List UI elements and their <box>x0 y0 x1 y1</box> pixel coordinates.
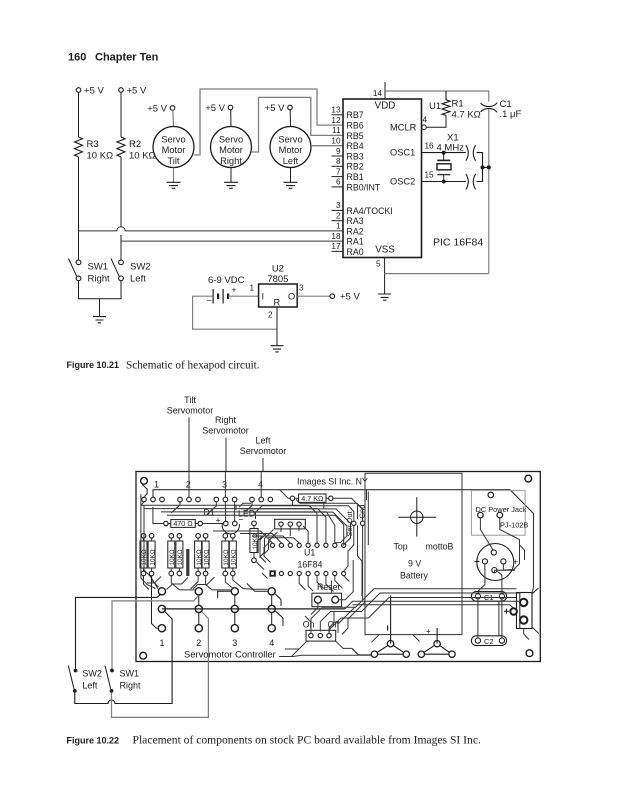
svg-text:VSS: VSS <box>375 245 395 256</box>
svg-text:+: + <box>426 627 431 636</box>
wire jack wrap trace <box>498 545 525 593</box>
pin 12 RB6 <box>331 116 363 131</box>
svg-text:2: 2 <box>268 311 273 320</box>
ground below servo Tilt <box>167 182 181 188</box>
wire R3 rail upper <box>78 92 80 137</box>
svg-text:9 V: 9 V <box>408 559 421 569</box>
mounting hole top-right <box>525 475 532 482</box>
wire staircase bundle lower <box>329 598 516 633</box>
wire Tilt ground lead <box>173 168 175 183</box>
wire battery negative loop to regulator pin 2 <box>193 296 277 329</box>
svg-text:160: 160 <box>68 52 86 64</box>
svg-text:4 MHz: 4 MHz <box>437 143 465 154</box>
wire Tilt label leader <box>188 418 190 472</box>
wire drop to SW2 bottom <box>75 612 172 704</box>
wire R2 to RA1 line <box>120 157 122 241</box>
resistor pair 10K group 4 <box>222 534 238 576</box>
svg-text:Servomotor: Servomotor <box>202 426 249 436</box>
wire OSC caps to ground rail <box>477 153 491 182</box>
resistor R 4.7K footprint <box>290 494 333 503</box>
svg-text:+5 V: +5 V <box>265 103 285 114</box>
svg-text:C2: C2 <box>484 637 493 646</box>
wire fan diagonals to U1 pins 1-4 <box>213 531 299 543</box>
wire terminal triangle 1 <box>371 641 409 658</box>
svg-text:−: − <box>207 296 212 306</box>
svg-text:Left: Left <box>255 436 271 446</box>
wire switches to common ground <box>79 281 122 317</box>
label output numbers bottom <box>160 638 275 648</box>
svg-text:10KΩ: 10KΩ <box>196 549 203 565</box>
mounting hole top-left <box>141 477 148 484</box>
IC U1 16F84 pads <box>269 543 345 577</box>
wire servo column leads <box>189 472 261 498</box>
svg-text:Servo: Servo <box>278 135 302 145</box>
svg-text:Motor: Motor <box>219 145 243 155</box>
node output pads row A <box>158 588 275 595</box>
svg-text:+5 V: +5 V <box>340 292 360 303</box>
ground below switches <box>93 317 106 323</box>
voltage regulator U2 7805 <box>249 264 304 320</box>
svg-text:RB7: RB7 <box>347 110 364 120</box>
wire battery positive to regulator input <box>228 295 259 297</box>
svg-text:Schematic of hexapod circuit.: Schematic of hexapod circuit. <box>126 360 260 372</box>
node +5V terminal of R2 <box>119 86 147 97</box>
label Left Servomotor <box>240 436 287 457</box>
svg-text:RB4: RB4 <box>347 141 364 151</box>
svg-text:O: O <box>288 292 295 302</box>
svg-text:RB1: RB1 <box>347 172 364 182</box>
node +5V terminal of servo Left <box>265 103 293 114</box>
svg-text:9: 9 <box>336 147 341 156</box>
caption figure 10.22 <box>67 734 481 747</box>
pin 8 RB2 <box>332 157 364 172</box>
capacitor on OSC2 <box>466 174 476 189</box>
wire 470 right pad to LED anode <box>202 523 223 525</box>
wire 470 left pad lead <box>153 507 164 524</box>
wire header to U1 <box>281 526 308 543</box>
resistor R3 <box>75 137 114 162</box>
label Gnd <box>358 505 367 526</box>
resistor pair 10K group 2 <box>168 534 190 577</box>
svg-text:OSC1: OSC1 <box>390 148 415 158</box>
switch footprint Reset <box>312 582 342 607</box>
wire LED leads up to header 3 <box>225 502 234 521</box>
svg-text:6-9 VDC: 6-9 VDC <box>208 275 245 286</box>
label Right Servomotor <box>202 415 249 436</box>
pin 5 VSS lead <box>376 258 385 295</box>
svg-text:1: 1 <box>160 638 165 648</box>
svg-text:3: 3 <box>336 201 341 210</box>
PC board outline <box>136 472 540 662</box>
wire jack pads to footprint <box>480 518 519 573</box>
pin 11 RB5 <box>332 126 364 141</box>
wire Gnd pair verticals <box>358 490 367 596</box>
svg-text:U1: U1 <box>304 548 315 558</box>
svg-text:OSC2: OSC2 <box>390 177 415 187</box>
svg-text:1: 1 <box>336 222 341 231</box>
switch footprint On Off <box>303 620 340 642</box>
resistor pair 10K group 1 <box>140 534 156 576</box>
wire servo Left to pin 10 RB4 <box>311 145 343 147</box>
svg-text:16: 16 <box>425 142 435 151</box>
battery 6-9 VDC <box>207 275 245 306</box>
wire VDD top rail to C1 <box>385 91 489 102</box>
wire R3 rail to SW1 <box>78 231 80 260</box>
svg-text:Figure 10.22: Figure 10.22 <box>67 736 120 746</box>
svg-text:.1 μF: .1 μF <box>500 109 522 120</box>
svg-text:Battery: Battery <box>400 571 428 581</box>
ground below servo Left <box>284 182 298 188</box>
svg-text:10KΩ: 10KΩ <box>203 549 210 565</box>
svg-text:RA0: RA0 <box>347 247 364 257</box>
wire from 4.7K left pad <box>280 490 290 498</box>
svg-text:2: 2 <box>336 212 341 221</box>
servo motor Tilt <box>153 127 194 168</box>
wire Left ground lead <box>290 168 292 183</box>
svg-text:3: 3 <box>299 284 304 293</box>
DC power jack box PJ-102B <box>471 490 528 535</box>
wire servo Tilt to pin 12 RB6 <box>194 89 343 155</box>
node output pads row B <box>158 605 275 612</box>
wire col 3 elbow <box>218 584 283 627</box>
svg-text:+5 V: +5 V <box>84 86 104 97</box>
switch SW1 Right <box>69 259 111 285</box>
svg-text:+5 V: +5 V <box>147 104 167 115</box>
svg-text:8: 8 <box>336 157 341 166</box>
wire battery plus to triangle 2 <box>436 628 438 644</box>
svg-text:470 Ω: 470 Ω <box>173 519 193 528</box>
wire diagonals bottom-left of battery <box>338 602 365 635</box>
wire R3 to RA2 line <box>78 157 80 231</box>
capacitor C1 .1uF <box>481 99 522 120</box>
svg-text:10KΩ: 10KΩ <box>169 549 176 565</box>
svg-text:R2: R2 <box>129 139 141 150</box>
node +5V output terminal <box>330 292 360 303</box>
node output pads row C <box>158 625 275 632</box>
pin 4 MCLR terminal <box>390 116 428 133</box>
wire wrap loop outer <box>236 500 300 520</box>
pin 9 RB3 <box>332 147 364 162</box>
svg-text:Servomotor: Servomotor <box>240 446 287 456</box>
capacitor C1 footprint <box>471 592 506 602</box>
capacitor C2 footprint <box>471 636 506 646</box>
svg-text:Right: Right <box>88 274 111 285</box>
pin 15 OSC2 lead <box>390 171 466 187</box>
svg-text:1: 1 <box>154 480 159 490</box>
resistor pair 10K group 3 <box>195 534 211 576</box>
pin 17 RA0 <box>331 242 363 257</box>
wire Gnd trace <box>300 503 363 600</box>
svg-text:Servo: Servo <box>161 135 185 145</box>
svg-text:U1: U1 <box>429 101 441 112</box>
caption figure 10.21 <box>67 360 260 372</box>
svg-text:RB0/INT: RB0/INT <box>347 183 381 193</box>
wire servo Right to pin 11 RB5 <box>251 97 343 152</box>
wire 4.7K pads drop traces <box>292 498 362 521</box>
wire bottom edge trace <box>279 655 371 656</box>
wire long top trace <box>142 484 533 592</box>
wire servo pads left diagonals <box>141 502 252 515</box>
pin 14 VDD lead <box>373 82 385 99</box>
svg-text:2: 2 <box>196 638 201 648</box>
mounting hole bottom-right <box>526 650 533 657</box>
wire loops left of U1 <box>257 534 271 563</box>
wire row C links <box>152 576 272 628</box>
svg-text:7: 7 <box>336 167 341 176</box>
svg-text:13: 13 <box>331 106 341 115</box>
resistor R2 <box>117 137 156 162</box>
pin 6 RB0/INT <box>332 178 381 193</box>
svg-text:−: − <box>239 515 244 525</box>
wire wrap loops around U1 <box>241 509 351 546</box>
pin 10 RB4 <box>331 137 363 152</box>
svg-text:14: 14 <box>373 89 383 98</box>
svg-text:R: R <box>274 298 281 308</box>
svg-text:10KΩ: 10KΩ <box>141 549 148 565</box>
crystal X1 4MHz <box>437 133 465 184</box>
wire MCLR to R1 <box>426 115 446 127</box>
svg-text:10 KΩ: 10 KΩ <box>87 151 114 162</box>
wire below on-off <box>285 641 371 655</box>
label Tilt Servomotor <box>167 395 214 416</box>
svg-text:10KΩ: 10KΩ <box>177 549 184 565</box>
wire RA2 line with hop over R2 rail <box>79 227 344 231</box>
svg-text:SW2: SW2 <box>130 262 151 273</box>
pin 18 RA1 <box>331 232 363 247</box>
wire R2 rail upper <box>120 92 122 137</box>
ground below VSS <box>378 294 391 300</box>
svg-text:Tilt: Tilt <box>184 395 196 405</box>
servo motor Left <box>270 127 311 168</box>
svg-text:Servomotor Controller: Servomotor Controller <box>184 649 276 660</box>
wire diagonals to triangles <box>372 635 420 643</box>
wire regulator output <box>297 295 330 297</box>
wire staircase bundle upper <box>311 589 520 632</box>
wire jack left pad to C1 <box>478 564 485 593</box>
wire traces to connector block <box>345 601 520 609</box>
svg-text:Chapter Ten: Chapter Ten <box>95 52 159 64</box>
svg-text:RB3: RB3 <box>347 151 364 161</box>
svg-text:10KΩ: 10KΩ <box>223 549 230 565</box>
resistor R1 4.7K <box>429 91 481 121</box>
svg-text:R1: R1 <box>452 99 464 110</box>
wire reset traces <box>311 560 353 615</box>
label connector numbers top <box>154 480 263 490</box>
svg-text:Left: Left <box>283 156 299 166</box>
svg-text:2: 2 <box>186 480 191 490</box>
svg-text:10KΩ: 10KΩ <box>231 549 238 565</box>
svg-text:RA2: RA2 <box>347 226 364 236</box>
wire Right +5V lead <box>230 110 232 127</box>
LED D1 <box>204 508 256 534</box>
resistor 470 ohm footprint <box>164 519 203 528</box>
svg-text:RB2: RB2 <box>347 162 364 172</box>
svg-text:15: 15 <box>425 171 435 180</box>
svg-text:RB6: RB6 <box>347 121 364 131</box>
pin 13 RB7 <box>331 106 363 121</box>
connector block right edge <box>504 588 539 640</box>
svg-text:U2: U2 <box>272 264 284 275</box>
svg-text:PJ-102B: PJ-102B <box>500 521 528 530</box>
svg-text:SW2: SW2 <box>82 669 102 679</box>
node servo header 1 pads <box>142 497 165 502</box>
svg-text:SW1: SW1 <box>88 262 109 273</box>
svg-text:3: 3 <box>222 480 227 490</box>
wire Tilt +5V lead <box>172 110 175 126</box>
ground below servo Right <box>224 182 238 188</box>
svg-text:Left: Left <box>130 274 146 285</box>
svg-text:5: 5 <box>376 260 381 269</box>
op-amp/IC U1 PIC16F84 box <box>343 99 422 258</box>
svg-text:4: 4 <box>423 116 428 125</box>
svg-text:10 KΩ: 10 KΩ <box>129 151 156 162</box>
switch SW2 Left external <box>68 666 102 693</box>
svg-text:Motor: Motor <box>162 145 186 155</box>
svg-text:PIC 16F84: PIC 16F84 <box>433 237 483 249</box>
resistor single 10K <box>250 521 259 563</box>
svg-text:Servomotor: Servomotor <box>167 406 214 416</box>
ground below regulator <box>271 346 284 352</box>
wire C1 to ground rail <box>488 109 490 274</box>
wire drop to SW1 bottom <box>112 612 209 718</box>
svg-text:Figure 10.21: Figure 10.21 <box>67 360 120 370</box>
svg-text:RA4/TOCKI: RA4/TOCKI <box>347 206 393 216</box>
wire battery minus to triangle 1 <box>390 595 392 643</box>
svg-text:10: 10 <box>331 137 341 146</box>
wire long traces to U1 pins <box>141 505 344 543</box>
svg-text:Images SI Inc. NY: Images SI Inc. NY <box>297 477 368 487</box>
wire VSS to C1 rail <box>385 273 489 275</box>
node +5V terminal of servo Right <box>205 103 233 114</box>
node servo header 2 pads <box>178 497 201 502</box>
svg-text:10KΩ: 10KΩ <box>149 549 156 565</box>
svg-text:RA1: RA1 <box>347 237 364 247</box>
svg-text:4: 4 <box>269 638 274 648</box>
wire extra loops left of U1 <box>257 530 278 579</box>
switch SW1 Right external <box>105 666 141 693</box>
svg-text:1: 1 <box>249 284 254 293</box>
svg-text:R3: R3 <box>87 139 99 150</box>
pin 7 RB1 <box>332 167 364 182</box>
wire SW2 top to pad A1 <box>76 594 162 669</box>
wire resistor bottoms to row A <box>144 576 268 590</box>
label Ser Out <box>345 511 356 536</box>
svg-text:Right: Right <box>220 156 242 166</box>
pin 3 RA4/TOCKI <box>332 201 393 216</box>
svg-text:11: 11 <box>332 126 341 135</box>
pin 2 RA3 <box>332 212 364 227</box>
wire terminal triangle 2 <box>418 641 455 658</box>
svg-text:SW1: SW1 <box>120 669 140 679</box>
svg-text:3: 3 <box>232 638 237 648</box>
svg-text:RA3: RA3 <box>347 216 364 226</box>
capacitor on OSC1 <box>466 145 476 160</box>
header 3-pin above U1 <box>275 519 306 529</box>
wire Right label leader <box>225 438 227 472</box>
battery outline 9V <box>365 473 462 636</box>
svg-text:+: + <box>232 285 237 295</box>
svg-text:Left: Left <box>82 681 98 691</box>
wire U1 bottom pad drops <box>299 576 349 592</box>
svg-text:6: 6 <box>336 178 341 187</box>
node servo header 3 pads <box>214 497 237 502</box>
svg-text:Motor: Motor <box>279 145 303 155</box>
wire Left label leader <box>262 458 264 472</box>
svg-text:4: 4 <box>258 480 263 490</box>
power jack footprint circle <box>475 544 519 581</box>
switch SW2 Left <box>111 259 151 285</box>
svg-text:+5 V: +5 V <box>127 86 147 97</box>
svg-text:I: I <box>262 292 265 302</box>
wire bundle to bottom left <box>279 648 358 656</box>
wire left edge verticals <box>141 494 158 589</box>
wire row B bus <box>162 608 345 610</box>
svg-text:12: 12 <box>331 116 341 125</box>
svg-text:On: On <box>303 620 315 630</box>
svg-text:Right: Right <box>120 681 142 691</box>
pin 16 OSC1 lead <box>390 142 466 158</box>
servo motor Right <box>211 127 252 168</box>
svg-text:VDD: VDD <box>375 101 396 112</box>
wire R2 rail to SW2 <box>120 241 122 260</box>
mounting hole bottom-left <box>140 652 147 659</box>
svg-text:4.7 KΩ: 4.7 KΩ <box>301 494 324 503</box>
svg-text:17: 17 <box>331 242 341 251</box>
wire Left +5V lead <box>289 110 291 127</box>
wire C1 to C2 columns <box>478 599 502 638</box>
svg-text:Servo: Servo <box>219 135 243 145</box>
wire right inner vertical <box>367 492 369 546</box>
wire curves below resistor row <box>147 577 215 590</box>
svg-text:18: 18 <box>331 232 341 241</box>
svg-text:Tilt: Tilt <box>167 156 179 166</box>
wire on-off left pad riser <box>305 612 334 633</box>
node +5V terminal of R3 <box>76 86 104 97</box>
svg-text:Placement of components on sto: Placement of components on stock PC boar… <box>133 734 481 747</box>
svg-text:mottoB: mottoB <box>426 542 454 552</box>
wire SW1 top to pad A2 <box>112 596 198 669</box>
svg-text:RB5: RB5 <box>347 131 364 141</box>
wire RA1 line <box>121 240 343 242</box>
svg-text:16F84: 16F84 <box>298 560 323 570</box>
wire Ser Out trace <box>262 506 354 572</box>
svg-text:4.7 KΩ: 4.7 KΩ <box>452 110 481 121</box>
svg-text:+5 V: +5 V <box>205 103 225 114</box>
svg-text:MCLR: MCLR <box>390 123 417 133</box>
pin 1 RA2 <box>336 222 364 237</box>
svg-text:Top: Top <box>394 542 408 552</box>
node +5V terminal of servo Tilt <box>147 104 175 115</box>
node servo header 4 pads <box>250 497 273 502</box>
wire regulator pin 2 to ground <box>276 307 278 346</box>
svg-text:Right: Right <box>215 415 237 425</box>
wire Right ground lead <box>230 168 232 183</box>
